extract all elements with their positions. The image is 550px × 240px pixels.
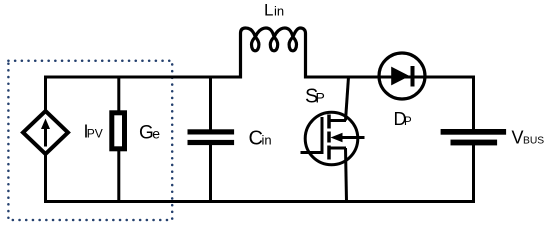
diode DP circle bbox=[379, 53, 425, 99]
wire MOSFET source vertical bbox=[346, 148, 347, 202]
MOSFET source stub bbox=[329, 147, 346, 150]
dotted PV-source boundary box bbox=[8, 61, 172, 220]
current source arrow bbox=[44, 127, 47, 147]
MOSFET drain stub bbox=[329, 119, 346, 122]
svg-text:PV: PV bbox=[87, 127, 103, 141]
svg-text:in: in bbox=[262, 132, 272, 147]
svg-text:V: V bbox=[512, 128, 524, 148]
wire Cin branch vertical bbox=[209, 77, 212, 202]
wire bottom horizontal bbox=[44, 200, 475, 203]
current source IPV diamond bbox=[23, 111, 68, 154]
svg-text:e: e bbox=[152, 126, 160, 142]
svg-text:in: in bbox=[274, 4, 284, 19]
battery VBUS plates bbox=[441, 129, 507, 135]
wire top-right horizontal bbox=[306, 76, 476, 79]
wire Ge branch vertical bbox=[117, 77, 120, 202]
wire left vertical bbox=[44, 76, 47, 204]
capacitor Cin bbox=[188, 129, 235, 134]
MOSFET channel dashes bbox=[327, 115, 331, 160]
diode triangle bbox=[391, 67, 409, 86]
svg-text:P: P bbox=[316, 90, 325, 106]
resistor Ge rectangle bbox=[112, 113, 125, 149]
MOSFET gate lead bbox=[301, 151, 323, 154]
diode cathode bar bbox=[411, 66, 415, 87]
svg-text:L: L bbox=[264, 1, 273, 20]
svg-text:BUS: BUS bbox=[523, 136, 544, 147]
svg-text:P: P bbox=[404, 116, 412, 128]
MOSFET SP circle bbox=[305, 112, 358, 165]
MOSFET body lead with arrow bbox=[340, 136, 365, 139]
wire top-left horizontal bbox=[46, 76, 241, 79]
wire right vertical bbox=[472, 76, 475, 204]
wire MOSFET drain vertical bbox=[346, 77, 349, 121]
inductor Lin coil bbox=[241, 28, 306, 79]
MOSFET gate bar bbox=[321, 117, 324, 154]
